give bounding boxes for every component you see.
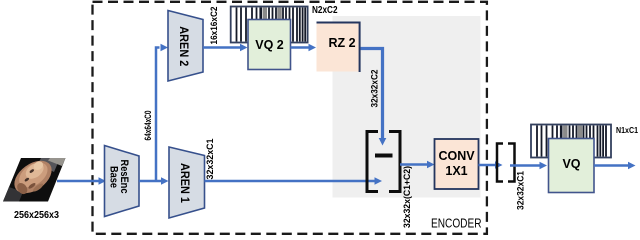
svg-text:16x16xC2: 16x16xC2 <box>209 7 219 45</box>
CONV 1X1 block <box>435 139 479 189</box>
wire VQ to output <box>594 162 636 169</box>
AREN 1 trapezoid <box>169 147 205 218</box>
VQ 2 block <box>248 20 291 70</box>
svg-text:CONV: CONV <box>438 149 475 163</box>
svg-text:VQ: VQ <box>562 157 580 171</box>
svg-text:N1xC1: N1xC1 <box>616 125 638 135</box>
wire ResEnc to AREN1 with junction <box>139 177 169 184</box>
wire AREN1 to concat <box>205 177 383 184</box>
AREN 2 trapezoid <box>168 11 203 82</box>
svg-text:Base: Base <box>108 166 120 188</box>
codebook barcode left <box>231 7 308 43</box>
input image parallelogram <box>3 154 66 201</box>
output bracket <box>497 144 515 182</box>
svg-text:256x256x3: 256x256x3 <box>14 209 59 221</box>
branch wire up to AREN2 <box>156 44 168 181</box>
svg-text:RZ 2: RZ 2 <box>328 36 355 50</box>
wire CONV to bracket <box>479 161 503 168</box>
svg-text:VQ 2: VQ 2 <box>255 38 284 52</box>
svg-text:32x32xC1: 32x32xC1 <box>205 139 215 180</box>
wire face to ResEnc <box>57 177 106 184</box>
RZ 2 block <box>317 22 361 72</box>
svg-text:N2xC2: N2xC2 <box>312 4 338 16</box>
ResEnc Base trapezoid <box>105 146 140 217</box>
encoder dashed boundary <box>93 2 487 234</box>
VQ block <box>549 139 595 193</box>
svg-text:64x64xC0: 64x64xC0 <box>143 111 153 141</box>
svg-text:AREN 1: AREN 1 <box>178 163 192 203</box>
wire concat to CONV <box>400 161 435 168</box>
svg-text:32x32x(C1+C2): 32x32x(C1+C2) <box>402 166 412 228</box>
svg-text:32x32xC2: 32x32xC2 <box>370 70 380 108</box>
encoder inner gray region <box>333 16 481 198</box>
minus bar <box>375 154 393 158</box>
codebook barcode right <box>531 125 611 158</box>
wire VQ2 to RZ2 <box>291 44 317 51</box>
wire AREN2 to VQ2 <box>203 44 248 51</box>
concat bracket <box>367 132 400 192</box>
svg-text:ENCODER: ENCODER <box>431 217 482 231</box>
wire RZ2 down to concat <box>361 49 387 146</box>
svg-text:AREN 2: AREN 2 <box>177 26 191 66</box>
wire bracket to VQ <box>510 162 547 169</box>
svg-text:32x32xC1: 32x32xC1 <box>516 171 526 210</box>
svg-text:1X1: 1X1 <box>445 164 467 178</box>
